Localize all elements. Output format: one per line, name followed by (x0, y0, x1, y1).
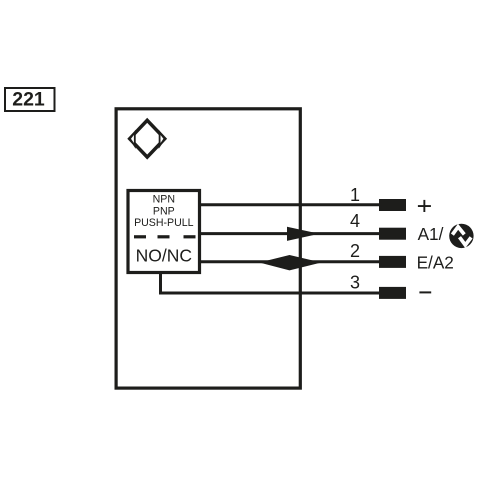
terminal pin 2 (379, 256, 406, 268)
wire pin 4 (200, 232, 380, 235)
label + (supply) (418, 200, 431, 212)
output stage block (128, 191, 200, 273)
dashed separator (134, 235, 196, 238)
svg-text:2: 2 (350, 241, 360, 261)
svg-text:PUSH-PULL: PUSH-PULL (134, 217, 194, 229)
proximity sensor symbol (diamond) (130, 120, 165, 157)
svg-text:4: 4 (350, 211, 360, 231)
terminal pin 4 (379, 228, 406, 240)
svg-text:A1/: A1/ (418, 224, 444, 244)
figure number box 221 (5, 88, 55, 111)
svg-text:PNP: PNP (153, 205, 175, 217)
terminal pin 1 (379, 199, 406, 211)
terminal pin 3 (379, 287, 406, 299)
svg-text:NPN: NPN (153, 194, 175, 206)
svg-text:1: 1 (350, 185, 360, 205)
svg-text:221: 221 (12, 88, 45, 110)
svg-text:3: 3 (350, 273, 360, 293)
label − (ground) (419, 291, 431, 293)
wire pin 1 (200, 203, 380, 206)
svg-text:E/A2: E/A2 (417, 253, 454, 273)
svg-text:NO/NC: NO/NC (136, 246, 192, 266)
bidirectional diamond (pin 2) (259, 255, 321, 270)
programmable output icon (449, 224, 473, 248)
wire pin 3 (161, 272, 380, 293)
sensor body outline (116, 109, 300, 388)
output direction arrow (pin 4) (287, 227, 319, 241)
wire pin 2 (200, 260, 380, 263)
